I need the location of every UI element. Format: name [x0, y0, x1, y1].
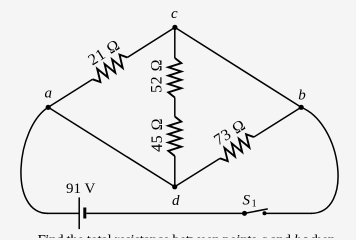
switch S1 left contact: [242, 211, 247, 216]
svg-text:Find the total resistance betw: Find the total resistance between points…: [38, 233, 336, 238]
battery B1 long plate: [78, 197, 80, 229]
svg-text:S: S: [243, 193, 251, 209]
wire c to d leads: [174, 27, 176, 186]
switch S1 lever: [245, 209, 268, 214]
node a: [46, 105, 51, 110]
svg-text:91 V: 91 V: [66, 181, 95, 197]
wire bottom middle segment battery to switch: [86, 212, 244, 214]
battery B1 short thick plate: [83, 208, 86, 219]
svg-text:73 Ω: 73 Ω: [211, 117, 249, 149]
wire a to c leads: [48, 27, 175, 107]
resistor R4 73 ohm zigzag: [220, 134, 254, 161]
resistor R1 21 ohm zigzag: [93, 55, 128, 82]
wire bottom left segment to battery: [47, 212, 79, 214]
node c: [172, 25, 177, 30]
svg-text:1: 1: [252, 199, 257, 210]
svg-text:c: c: [171, 6, 178, 22]
svg-text:d: d: [172, 193, 180, 209]
wire a to d: [48, 107, 175, 187]
resistor R3 45 ohm zigzag: [168, 117, 181, 157]
wire right curve from bottom to b: [301, 107, 338, 213]
wire left curve from a to bottom: [21, 107, 48, 213]
node d: [172, 184, 177, 189]
switch S1 right contact: [263, 211, 267, 215]
svg-text:a: a: [45, 86, 53, 102]
svg-text:52 Ω: 52 Ω: [149, 59, 166, 93]
wire bottom right segment to curve: [265, 212, 313, 214]
wire d to b leads: [175, 107, 302, 187]
svg-text:45 Ω: 45 Ω: [149, 118, 166, 152]
wire c to b: [175, 27, 301, 107]
svg-text:b: b: [298, 87, 306, 103]
resistor R2 52 ohm zigzag: [168, 58, 181, 98]
node b: [299, 105, 304, 110]
